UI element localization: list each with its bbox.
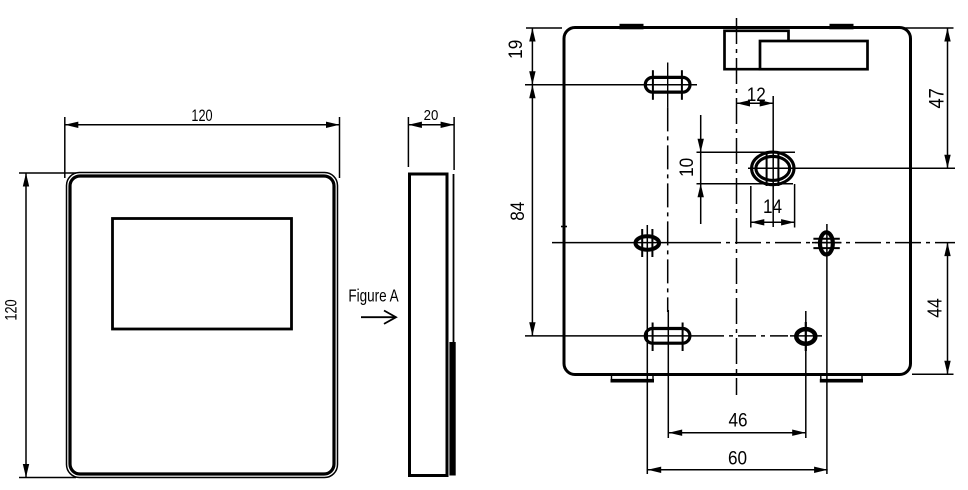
svg-text:20: 20 bbox=[424, 106, 439, 123]
vertical centerline bbox=[736, 18, 738, 395]
dimension 10: extension lines bbox=[697, 152, 796, 184]
dimension 120 left: dimension line bbox=[25, 173, 27, 478]
back view top tab left bbox=[620, 24, 644, 30]
horizontal line top slot row bbox=[525, 84, 697, 86]
middle right oval arc-center ticks bbox=[813, 239, 839, 248]
dimension 19/84: dimension line bbox=[531, 28, 533, 336]
svg-text:47: 47 bbox=[925, 88, 949, 108]
svg-text:46: 46 bbox=[728, 408, 747, 430]
svg-text:10: 10 bbox=[675, 158, 697, 177]
dimension 46 arrows bbox=[669, 430, 683, 436]
middle left oval vertical line to 60 dim bbox=[646, 225, 648, 474]
top slot arc-center ticks bbox=[653, 70, 682, 100]
dimension 120 top: extension lines bbox=[65, 117, 340, 178]
side view back plate lower solid part bbox=[449, 342, 455, 476]
front view outer shell bbox=[67, 173, 338, 478]
dimension 44 arrows bbox=[944, 243, 950, 257]
side view main body bbox=[410, 174, 448, 476]
dimension 12: dimension line bbox=[737, 102, 774, 104]
dimension 120 top: arrows bbox=[65, 122, 79, 128]
center hole horizontal centerline bbox=[748, 167, 955, 169]
center hole arc-center ticks bbox=[767, 152, 779, 187]
back view top tab right bbox=[830, 24, 854, 30]
back view bottom tab right bbox=[820, 376, 863, 381]
middle right oval hole bbox=[820, 232, 833, 254]
dimension 19 arrows bbox=[529, 28, 535, 42]
bottom slot vertical line to 46 dim bbox=[667, 310, 669, 438]
middle left oval arc-center ticks bbox=[642, 229, 652, 257]
svg-text:14: 14 bbox=[763, 195, 782, 217]
dimension 47/44: extension lines right bbox=[903, 28, 954, 374]
svg-text:44: 44 bbox=[923, 298, 945, 318]
left hole column dash-dot centerline bbox=[667, 107, 669, 312]
bottom right hole vertical line to 46 dim bbox=[805, 311, 807, 438]
svg-text:120: 120 bbox=[191, 108, 212, 126]
top slot vertical centerline bbox=[667, 63, 669, 108]
center hole inner ring bbox=[756, 156, 790, 180]
horizontal centerline middle row bbox=[552, 242, 955, 244]
top mounting slot bbox=[645, 77, 690, 92]
dimension 20: arrows bbox=[408, 122, 422, 128]
dimension 14: extension lines bbox=[751, 184, 795, 228]
bottom slot arc-center ticks bbox=[653, 323, 683, 352]
back view bottom tab left bbox=[611, 376, 655, 381]
center hole vertical centerline bbox=[772, 96, 774, 227]
back view left edge parting notch bbox=[561, 226, 567, 228]
dimension 46: dimension line bbox=[669, 432, 806, 434]
dimension 120 left: extension lines bbox=[19, 173, 76, 478]
svg-text:12: 12 bbox=[747, 83, 766, 105]
dimension 20: dimension line bbox=[408, 124, 454, 126]
svg-text:Figure A: Figure A bbox=[348, 287, 399, 306]
center hole outer ring bbox=[752, 152, 794, 185]
dimension 60 arrows bbox=[648, 467, 662, 473]
dimension 10: dimension line bbox=[700, 115, 702, 224]
dimension 60: dimension line bbox=[648, 469, 828, 471]
dimension 47 arrows bbox=[944, 28, 950, 42]
back view body outline bbox=[564, 28, 911, 375]
dimension 120 top: dimension line bbox=[65, 124, 340, 126]
dimension 120 left: arrows bbox=[23, 173, 29, 187]
Figure A arrow bbox=[361, 311, 396, 324]
middle right oval vertical line to 60 dim bbox=[826, 224, 828, 474]
back view top recess outer step bbox=[725, 31, 789, 69]
dimension 14: dimension line bbox=[751, 221, 795, 223]
dimension 20: extension lines bbox=[408, 117, 454, 170]
horizontal line bottom hole row bbox=[525, 335, 822, 337]
bottom right hole center tick bbox=[805, 322, 807, 351]
dimension 47: dimension line bbox=[947, 28, 949, 168]
svg-text:60: 60 bbox=[728, 446, 747, 468]
dimension 12 arrows bbox=[737, 100, 751, 106]
middle left oval hole bbox=[636, 236, 660, 249]
side view back plate line bbox=[453, 174, 455, 476]
dimension 10 arrows (outside) bbox=[698, 139, 704, 153]
back view top recess inner rectangle bbox=[760, 41, 868, 69]
dimension 84 arrows bbox=[529, 85, 535, 99]
dimension 19/84: top extension line bbox=[526, 27, 562, 29]
dimension 44: dimension line bbox=[947, 243, 949, 375]
front view display window bbox=[113, 219, 292, 330]
dimension 14 arrows bbox=[751, 219, 765, 225]
svg-text:84: 84 bbox=[506, 202, 528, 221]
svg-text:120: 120 bbox=[3, 299, 21, 320]
bottom mounting slot bbox=[645, 329, 690, 344]
bottom right hole bbox=[796, 329, 815, 344]
svg-text:19: 19 bbox=[504, 40, 526, 59]
